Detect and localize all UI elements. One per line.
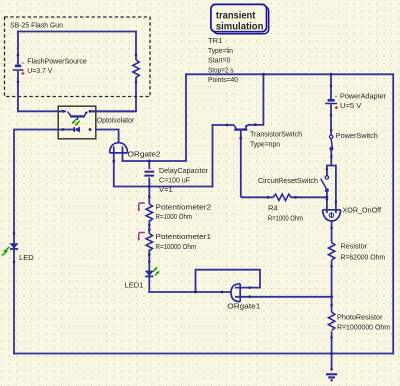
or-gate ORgate1 xyxy=(231,284,240,302)
node transistor emitter pin xyxy=(254,123,257,126)
node dots xyxy=(13,54,338,371)
wire power adapter bottom to power switch xyxy=(330,104,332,135)
node ORgate1 upper input pin xyxy=(248,286,251,289)
node XOR output pin xyxy=(330,226,333,229)
node opto pin 4 xyxy=(89,128,92,131)
svg-text:FlashPowerSource: FlashPowerSource xyxy=(27,56,87,65)
wire battery bottom to corner xyxy=(18,71,66,111)
node potentiometer1 top pin xyxy=(148,229,151,232)
svg-text:PowerAdapter: PowerAdapter xyxy=(340,92,386,101)
wire photoresistor to ground xyxy=(331,331,333,370)
node flash resistor bottom pin xyxy=(135,81,138,84)
wire LED1 bottom to ORgate1 output xyxy=(148,291,231,293)
node potentiometer2 top pin xyxy=(148,195,151,198)
wire split to reset switch xyxy=(326,165,328,176)
LED light arrows xyxy=(4,247,10,254)
node opto pin 3 xyxy=(62,128,65,131)
wire capacitor top stub xyxy=(148,160,150,169)
node power switch top pin xyxy=(330,129,333,132)
wire power switch to split xyxy=(330,150,332,166)
node opto pin 1 xyxy=(62,110,65,113)
junction photoresistor column xyxy=(330,295,333,298)
node power adapter bottom pin xyxy=(330,114,333,117)
svg-text:LED: LED xyxy=(19,253,34,262)
plus sign PowerAdapter xyxy=(335,106,338,109)
junction top rail power adapter xyxy=(330,73,333,76)
wire ORgate2 right leg xyxy=(122,147,124,162)
junction LED1 feedback xyxy=(194,290,197,293)
wire R4 right to junction xyxy=(291,196,328,198)
wire reset switch to XOR left input xyxy=(326,192,328,213)
svg-text:R=1000 Ohm: R=1000 Ohm xyxy=(268,213,303,222)
optoisolator light arrows xyxy=(73,119,80,125)
node LED bottom pin xyxy=(13,261,16,264)
node power adapter top pin xyxy=(330,85,333,88)
wire resistor to photoresistor xyxy=(331,260,333,312)
xor-gate XOR_OnOff xyxy=(323,210,341,221)
wire ORgate2 left leg down xyxy=(114,147,214,187)
node R4 right pin xyxy=(294,196,297,199)
junction chain mid xyxy=(148,185,151,188)
wire optoisolator bottom-left to LED column xyxy=(14,130,74,355)
svg-text:C=100 uF: C=100 uF xyxy=(159,175,190,184)
junction R4 reset switch xyxy=(325,196,328,199)
node ORgate2 left leg pin xyxy=(112,160,115,163)
svg-text:R=1000 Ohm: R=1000 Ohm xyxy=(156,212,193,221)
switch PowerSwitch xyxy=(330,135,334,150)
dashed enclosure SB-25 Flash Gun xyxy=(5,17,151,97)
wire power adapter top stub xyxy=(330,73,332,99)
node ORgate1 output pin xyxy=(221,291,224,294)
svg-text:simulation: simulation xyxy=(216,21,264,32)
node photoresistor top pin xyxy=(330,304,333,307)
node XOR left input pin xyxy=(326,198,329,201)
switch CircuitResetSwitch xyxy=(321,176,329,192)
svg-text:U=3.7 V: U=3.7 V xyxy=(27,66,53,75)
optoisolator LED xyxy=(74,127,80,132)
or-gate ORgate2 xyxy=(110,143,128,153)
svg-text:CircuitResetSwitch: CircuitResetSwitch xyxy=(258,176,318,185)
junction bottom rail ground xyxy=(330,352,333,355)
svg-text:R4: R4 xyxy=(268,204,278,213)
wire potentiometer1 to LED1 corner xyxy=(148,249,150,293)
simulation box transient simulation xyxy=(211,4,269,33)
svg-text:DelayCapacitor: DelayCapacitor xyxy=(159,166,208,175)
diode LED xyxy=(10,244,18,250)
resistor Resistor xyxy=(328,242,334,260)
node ground pin xyxy=(330,368,333,371)
svg-text:Stop=2 s: Stop=2 s xyxy=(208,65,234,74)
node potentiometer1 bottom pin xyxy=(148,253,151,256)
diode LED1 xyxy=(145,271,153,277)
minus sign FlashPowerSource xyxy=(22,62,24,64)
svg-text:U=5 V: U=5 V xyxy=(340,101,362,110)
node potentiometer2 bottom pin xyxy=(148,224,151,227)
resistor flash (unnamed) xyxy=(133,60,139,78)
minus sign PowerAdapter xyxy=(335,95,337,97)
wire battery top stub xyxy=(17,31,19,65)
node battery flash bottom pin xyxy=(17,81,20,84)
svg-text:Type=npn: Type=npn xyxy=(250,139,280,148)
wire capacitor bottom to potentiometer2 xyxy=(148,178,150,204)
svg-text:PowerSwitch: PowerSwitch xyxy=(336,131,378,140)
svg-text:LED1: LED1 xyxy=(125,281,144,290)
node R4 left pin xyxy=(267,196,270,199)
wire top rail xyxy=(185,73,394,75)
wire right rail xyxy=(392,73,394,354)
wire base down to R4 xyxy=(241,131,273,198)
wire collector riser xyxy=(213,125,235,187)
node transistor base pin xyxy=(239,137,242,140)
svg-text:Potentiometer1: Potentiometer1 xyxy=(156,232,212,241)
svg-text:TransistorSwitch: TransistorSwitch xyxy=(250,130,302,139)
potentiometer Potentiometer2 xyxy=(146,204,152,221)
wire potentiometer2 to potentiometer1 xyxy=(148,220,150,233)
node ORgate1 lower input pin xyxy=(248,295,251,298)
svg-text:Optoisolator: Optoisolator xyxy=(97,115,135,124)
LED1 light arrows xyxy=(153,268,159,275)
svg-text:R=1000000 Ohm: R=1000000 Ohm xyxy=(337,322,390,331)
node reset switch top pin xyxy=(326,168,329,171)
plus sign FlashPowerSource xyxy=(21,72,24,75)
svg-text:Potentiometer2: Potentiometer2 xyxy=(156,202,212,211)
svg-text:ORgate2: ORgate2 xyxy=(128,149,161,158)
node opto pin 2 xyxy=(89,110,92,113)
wire ORgate1 upper input feedback loop xyxy=(196,270,261,293)
node battery flash top pin xyxy=(17,54,20,57)
node XOR right input pin xyxy=(335,200,338,203)
svg-text:transient: transient xyxy=(216,10,256,21)
node photoresistor bottom pin xyxy=(330,336,333,339)
optoisolator phototransistor xyxy=(68,112,88,121)
svg-text:ORgate1: ORgate1 xyxy=(227,302,260,311)
svg-text:SB-25 Flash Gun: SB-25 Flash Gun xyxy=(10,20,63,29)
optoisolator U1 box xyxy=(58,106,96,139)
svg-text:Type=lin: Type=lin xyxy=(208,46,233,55)
resistor R4 xyxy=(273,194,291,200)
resistor PhotoResistor xyxy=(328,312,334,330)
junction top rail emitter riser xyxy=(262,73,265,76)
wire XOR output to resistor xyxy=(331,221,333,243)
svg-text:R=10000 Ohm: R=10000 Ohm xyxy=(156,242,197,251)
wire optoisolator top-right segment xyxy=(89,110,137,112)
wire flash loop top xyxy=(17,31,137,33)
wire ORgate2 output up to optoisolator xyxy=(95,130,119,144)
wire ORgate1 lower input to photoresistor column xyxy=(235,296,333,298)
ground xyxy=(326,374,337,380)
svg-text:TR1: TR1 xyxy=(208,36,222,45)
junction capacitor top xyxy=(148,160,151,163)
potentiometer Potentiometer1 xyxy=(146,233,152,250)
battery PowerAdapter xyxy=(325,100,337,103)
svg-text:Start=0: Start=0 xyxy=(208,56,231,65)
node LED top pin xyxy=(13,232,16,235)
wire split bar xyxy=(327,165,336,167)
wire split right to XOR right input xyxy=(335,165,337,213)
node LED1 top pin xyxy=(148,260,151,263)
transistor TransistorSwitch xyxy=(234,125,248,130)
optoisolator orange node mark xyxy=(75,124,77,126)
node flash resistor top pin xyxy=(135,54,138,57)
potentiometer1 wiper arrow xyxy=(139,233,145,239)
svg-text:PhotoResistor: PhotoResistor xyxy=(337,312,383,321)
node resistor bottom pin xyxy=(330,265,333,268)
capacitor DelayCapacitor xyxy=(144,172,154,176)
svg-text:Resistor: Resistor xyxy=(341,242,368,251)
potentiometer2 wiper arrow xyxy=(139,203,145,209)
wire emitter riser to top rail xyxy=(248,73,264,125)
wire flash resistor top stub xyxy=(135,31,137,60)
wire left drop of top loop xyxy=(122,73,186,161)
svg-text:XOR_OnOff: XOR_OnOff xyxy=(343,206,382,215)
node transistor collector pin xyxy=(226,124,229,127)
wire bottom rail xyxy=(13,353,394,355)
svg-text:R=62000 Ohm: R=62000 Ohm xyxy=(341,252,386,261)
svg-text:V=1: V=1 xyxy=(159,185,173,194)
svg-text:Points=40: Points=40 xyxy=(208,75,238,84)
wire flash resistor bottom to optoisolator xyxy=(89,77,136,111)
battery FlashPowerSource xyxy=(13,66,24,70)
node power switch bottom pin xyxy=(330,155,333,158)
